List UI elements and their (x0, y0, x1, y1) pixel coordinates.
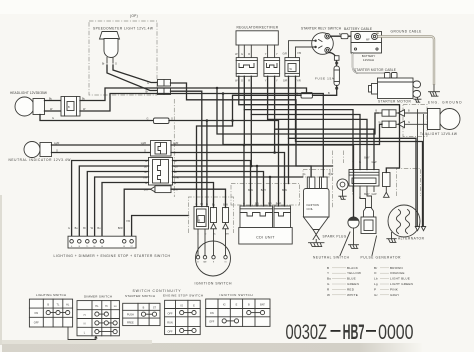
CDI connector left block (240, 206, 273, 228)
wire speedo G to connector (113, 65, 157, 83)
handlebar switch box (68, 236, 136, 248)
svg-text:G: G (241, 80, 243, 83)
starter motor ground (414, 98, 421, 103)
ignition coil connector dash-dot (303, 170, 330, 178)
svg-text:ENGINE STOP SWITCH: ENGINE STOP SWITCH (163, 294, 203, 298)
starter switch table (123, 303, 160, 325)
wire headlight W (45, 110, 62, 112)
CDI pin labels (243, 189, 287, 206)
alternator ground (387, 233, 396, 243)
svg-text:W: W (327, 293, 330, 297)
svg-text:B: B (327, 266, 329, 270)
svg-text:G: G (115, 63, 117, 66)
svg-text:P: P (374, 287, 376, 291)
speedometer light dash-dot enclosure (89, 21, 157, 95)
wire reg Y to block p3 (268, 76, 367, 169)
svg-text:G: G (147, 82, 149, 85)
junction B (231, 119, 234, 122)
pulse generator leader (372, 236, 377, 256)
svg-text:G: G (408, 121, 410, 124)
cluster top pin labels (196, 203, 229, 207)
wire neutral G to CDI (171, 153, 285, 207)
G pill connector (154, 118, 170, 124)
taillight bulb (428, 109, 461, 130)
fuse pill connector (301, 92, 313, 98)
taillight dash-dot box (403, 105, 427, 137)
harness dash-dot boundary vertical (173, 99, 175, 197)
svg-text:Lg: Lg (374, 282, 378, 286)
spark plug gap (313, 230, 319, 243)
svg-text:Bu: Bu (327, 277, 331, 281)
svg-text:LIGHT BLUE: LIGHT BLUE (390, 277, 410, 281)
4-pin connector block (349, 170, 379, 187)
junction G (206, 119, 209, 122)
svg-text:Y/R: Y/R (297, 52, 301, 55)
svg-text:N: N (84, 323, 86, 326)
svg-text:HB7: HB7 (343, 320, 365, 344)
fuse body (334, 62, 339, 90)
part number (286, 320, 414, 344)
svg-text:LIGHT GREEN: LIGHT GREEN (390, 282, 413, 286)
svg-text:Gr: Gr (374, 293, 378, 297)
svg-text:B/W: B/W (225, 234, 229, 236)
eng ground symbol (429, 85, 440, 96)
main connector column (149, 158, 173, 186)
ignition coil body (304, 189, 330, 230)
svg-text:Br: Br (83, 227, 86, 230)
wire reg W to resistor (239, 76, 400, 172)
wire reg Y2 continuation down (274, 129, 276, 152)
legend tie lines (332, 268, 389, 295)
svg-text:Y/R: Y/R (297, 80, 301, 83)
riser wire G to switch (72, 161, 149, 237)
diode unit 2 (223, 208, 229, 229)
pulse generator body (361, 217, 376, 234)
svg-text:HL: HL (94, 246, 96, 248)
svg-text:LIGHTING + DIMMER + ENGINE ST: LIGHTING + DIMMER + ENGINE STOP + STARTE… (54, 254, 171, 258)
svg-text:Lg/R: Lg/R (54, 142, 59, 145)
svg-text:G/W: G/W (372, 193, 378, 196)
starter relay switch (312, 33, 334, 55)
svg-text:STARTER MOTOR: STARTER MOTOR (378, 100, 411, 104)
svg-text:BLACK: BLACK (347, 266, 359, 270)
svg-text:MF: MF (366, 39, 370, 42)
svg-text:ON: ON (34, 312, 38, 315)
svg-text:WHITE: WHITE (347, 293, 358, 297)
svg-text:ALTERNATOR: ALTERNATOR (398, 237, 425, 241)
svg-text:G: G (241, 53, 243, 56)
headlight bulb (15, 97, 45, 116)
column pin labels right (175, 160, 179, 185)
ignition cluster connector (B) (194, 207, 209, 230)
relay to fuse wire (329, 52, 337, 66)
wire pill to fuse (313, 86, 337, 96)
wire Lg/R branch to CDI (243, 145, 245, 206)
alternator arrow wires (415, 110, 425, 231)
riser wire W to switch (95, 177, 149, 236)
svg-text:Lb: Lb (374, 277, 378, 281)
wire reg R continuation down (250, 115, 252, 167)
wire speedo Br to cluster (171, 91, 202, 206)
svg-text:GRAY: GRAY (390, 293, 399, 297)
svg-text:PUSH: PUSH (127, 314, 134, 317)
svg-text:TAILLIGHT 12V5.4W: TAILLIGHT 12V5.4W (420, 132, 457, 136)
svg-text:Hi: Hi (105, 305, 108, 308)
svg-text:Y: Y (327, 271, 329, 275)
spark plug ground (309, 243, 325, 247)
wire neutral G (52, 152, 151, 154)
svg-text:G: G (147, 117, 149, 120)
dimmer switch table (77, 301, 119, 336)
svg-text:(OP): (OP) (130, 14, 138, 18)
svg-text:OFF: OFF (209, 321, 214, 324)
wire reg G to block p1 (244, 76, 353, 169)
connector block C1 (236, 58, 257, 77)
svg-text:BROWN: BROWN (390, 266, 403, 270)
svg-text:BAT: BAT (260, 304, 265, 307)
svg-text:0030Z: 0030Z (286, 320, 328, 344)
regulator/rectifier box (236, 31, 278, 45)
wire headlight W to coil right (80, 94, 323, 178)
svg-text:G: G (327, 282, 330, 286)
wire column Bu to CDI (173, 166, 258, 206)
regulator pins down (235, 45, 278, 58)
svg-text:BLUE: BLUE (347, 277, 356, 281)
svg-text:LIGHTING SWITCH: LIGHTING SWITCH (36, 293, 66, 297)
svg-text:G: G (144, 149, 146, 152)
pulse generator feeds (360, 192, 372, 208)
color code legend (327, 266, 413, 297)
riser wire Bu2 to switch (102, 183, 149, 237)
svg-text:R: R (248, 53, 250, 56)
B/W arrow connector (144, 186, 179, 193)
wire headlight Bu (45, 100, 62, 102)
alternator dash-dot (397, 169, 421, 197)
neutral indicator bulb (24, 142, 52, 158)
svg-text:IGNITION SWITCH: IGNITION SWITCH (195, 281, 233, 285)
svg-text:Br: Br (102, 63, 105, 66)
svg-text:NEUTRAL INDICATOR 12V3.4W: NEUTRAL INDICATOR 12V3.4W (9, 158, 71, 162)
svg-text:STARTER SWITCH: STARTER SWITCH (125, 294, 155, 298)
svg-text:PINK: PINK (390, 287, 399, 291)
junction Lg/R (243, 144, 246, 147)
wire reg G continuation down (243, 110, 245, 145)
svg-text:R: R (248, 80, 250, 83)
svg-text:GROUND CABLE: GROUND CABLE (391, 30, 422, 34)
lighting-dimmer link arrow (68, 327, 96, 340)
svg-text:OFF: OFF (168, 331, 173, 334)
svg-text:HEADLIGHT 12V35/35W: HEADLIGHT 12V35/35W (10, 91, 47, 95)
svg-text:OFF: OFF (168, 313, 173, 316)
starter motor cable (353, 53, 388, 78)
diode unit 1 (211, 208, 217, 229)
ignition switch (196, 241, 231, 276)
svg-text:G: G (56, 149, 58, 152)
wire column B to diode (173, 183, 214, 208)
headlight connector (61, 97, 80, 117)
starter motor (369, 73, 421, 99)
wire Bu extension to harness (257, 165, 333, 167)
wire G trunk to CDI (207, 121, 279, 207)
svg-text:B/W: B/W (329, 173, 334, 176)
wire column G to CDI (173, 161, 251, 207)
CDI connector right block (274, 206, 291, 228)
riser wire Br to switch (87, 172, 148, 237)
wire Y/R to alternator arrow2 (296, 76, 423, 226)
pulse generator cap (364, 208, 374, 218)
svg-text:BATTERY CABLE: BATTERY CABLE (344, 27, 372, 31)
wire speedo G to coil left (171, 83, 312, 177)
switch wire labels (68, 220, 130, 230)
svg-text:G: G (304, 173, 306, 176)
taillight wire row B (375, 110, 427, 117)
wire neutral Lg/R to neutral switch (171, 145, 354, 217)
wire relay Y/R to C3 (296, 47, 315, 58)
svg-text:RED: RED (347, 287, 355, 291)
svg-text:CDI UNIT: CDI UNIT (256, 236, 275, 240)
alternator (388, 205, 420, 237)
labels below connectors (235, 80, 301, 83)
svg-text:IGNITION SWITCH: IGNITION SWITCH (220, 293, 253, 297)
svg-text:COIL: COIL (307, 207, 314, 211)
neutral switch (348, 217, 359, 249)
column pin labels left (143, 160, 148, 185)
wire headlight G down-right (40, 115, 154, 121)
wire G/R continuation down (288, 138, 290, 183)
svg-text:YELLOW: YELLOW (347, 271, 361, 275)
wire relay G/R to C3 (289, 41, 315, 58)
svg-text:G/R: G/R (283, 80, 288, 83)
svg-text:B/W: B/W (118, 227, 123, 230)
svg-text:REGULATOR/RECTIFIER: REGULATOR/RECTIFIER (237, 26, 279, 30)
svg-text:FREE: FREE (127, 322, 134, 325)
wire neutral Lg/R (52, 144, 151, 146)
svg-text:SPEEDOMETER LIGHT 12V1.4W: SPEEDOMETER LIGHT 12V1.4W (93, 27, 153, 31)
svg-text:ENG. GROUND: ENG. GROUND (428, 101, 462, 105)
connector pair speedo (146, 80, 171, 95)
wire Y/R extension (270, 176, 303, 178)
wire reg R to block p2 (251, 76, 360, 169)
svg-text:IG: IG (223, 304, 226, 307)
svg-text:FUSE 15A: FUSE 15A (315, 76, 334, 80)
wire speedo Br to connector (107, 65, 157, 91)
svg-text:DIMMER SWITCH: DIMMER SWITCH (84, 295, 112, 299)
riser wire Y/R to switch (132, 216, 189, 237)
svg-text:ON: ON (210, 312, 214, 315)
svg-text:G/R: G/R (283, 53, 288, 56)
svg-text:Y/R: Y/R (126, 220, 130, 223)
svg-text:STARTER MOTOR CABLE: STARTER MOTOR CABLE (354, 68, 396, 72)
svg-text:SPARK PLUG: SPARK PLUG (323, 235, 347, 239)
bottom scan band (2, 343, 422, 352)
fuse connector square (334, 56, 339, 61)
ignition cluster dash-dot boundary (189, 197, 234, 233)
svg-text:Lg/R: Lg/R (141, 142, 146, 145)
wire column Br to CDI (173, 172, 264, 207)
block top pin stubs (352, 157, 377, 170)
ignition switch table (206, 299, 270, 326)
lighting switch table (29, 299, 72, 327)
svg-text:G: G (52, 117, 54, 120)
grommet ring (337, 179, 348, 199)
svg-text:IG: IG (180, 305, 183, 308)
CDI dash-dot boundary (231, 184, 300, 206)
block bottom pin stubs (352, 186, 377, 199)
connector block C3 (285, 58, 300, 77)
svg-text:12V6AH: 12V6AH (363, 58, 374, 62)
resistor component (383, 173, 391, 198)
svg-text:RUN: RUN (167, 322, 173, 325)
svg-text:NEUTRAL SWITCH: NEUTRAL SWITCH (313, 256, 350, 260)
wires cluster to ignition switch (197, 229, 229, 256)
svg-text:ST: ST (153, 306, 157, 309)
ground cable (378, 33, 435, 86)
neutral double connector (141, 141, 179, 157)
wire taillight B feed (217, 88, 379, 134)
wire B/W to diode2 (171, 189, 226, 207)
riser wire B/W to switch (124, 189, 150, 236)
wire reg Y2 to block p4 (275, 76, 374, 169)
svg-text:BAT: BAT (203, 261, 206, 264)
battery (351, 32, 382, 54)
svg-text:G: G (379, 121, 381, 124)
speedometer bulb (100, 32, 120, 66)
svg-text:STARTER RELY SWITCH: STARTER RELY SWITCH (301, 27, 342, 31)
svg-text:PULSE GENERATOR: PULSE GENERATOR (361, 256, 402, 260)
svg-text:H: H (84, 314, 86, 317)
svg-text:Bu: Bu (213, 234, 215, 236)
right harness dash-dot (333, 151, 344, 209)
wire taillight G feed (223, 94, 382, 145)
svg-text:GREEN: GREEN (347, 282, 359, 286)
CDI unit box (239, 228, 292, 245)
wire B harness to cluster (197, 95, 302, 206)
engine stop switch table (165, 300, 201, 334)
neutral switch leader (340, 232, 350, 256)
connector block C2 (264, 58, 280, 77)
svg-text:O: O (374, 271, 377, 275)
svg-text:ORANGE: ORANGE (390, 271, 405, 275)
battery cable wire (330, 35, 354, 37)
svg-text:G: G (68, 227, 70, 230)
svg-text:TL: TL (86, 246, 88, 248)
svg-text:SWITCH CONTINUITY: SWITCH CONTINUITY (133, 289, 182, 293)
wire G/R to alternator arrow1 (289, 76, 417, 226)
ignition coil top connectors (304, 173, 334, 189)
svg-text:0000: 0000 (378, 320, 413, 344)
riser wire Bu to switch (79, 166, 148, 236)
wire column Y/R to CDI (173, 177, 271, 206)
svg-text:OFF: OFF (34, 322, 39, 325)
svg-text:Br: Br (374, 266, 378, 270)
wire G to cluster pin (169, 121, 207, 207)
svg-text:ST: ST (131, 246, 133, 248)
wire headlight Bu to pill (80, 88, 307, 101)
taillight wire row G (379, 121, 428, 128)
